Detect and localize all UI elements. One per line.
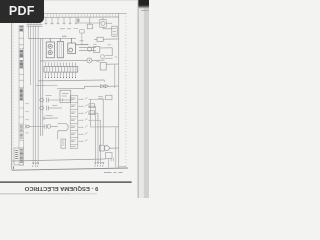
long bottom wire <box>12 153 112 168</box>
PDF badge <box>0 0 44 23</box>
switch S3 and solenoid loop <box>26 123 68 139</box>
label box bottom-centre <box>61 139 66 148</box>
relay box K2 (ladder top right) <box>98 95 112 100</box>
harness end arrows (right) <box>95 162 104 167</box>
harness end arrows (left) <box>32 162 38 167</box>
sender G1 (row at y100) <box>40 39 70 136</box>
drawing frame left border <box>12 14 14 170</box>
horn H1 with wires <box>79 46 112 55</box>
legend text blobs <box>20 27 23 139</box>
terminal drops below top ruler <box>45 17 78 29</box>
fuse box F1 (upper right) <box>94 37 119 41</box>
drawing frame top ruler strip <box>12 13 127 17</box>
wire (right vertical to bottom border) <box>115 127 117 167</box>
lamp L1 (top right) <box>100 17 112 27</box>
ignition switch S1 <box>46 38 54 57</box>
separator rule above caption <box>0 181 132 183</box>
ladder row labels <box>71 98 76 147</box>
page background <box>0 0 149 198</box>
diode pair D1 D2 <box>101 84 119 88</box>
annotation smudge (Anexo note) <box>104 171 123 173</box>
drawing frame bottom border <box>12 168 129 170</box>
tiny value labels <box>25 41 117 162</box>
node bus top-left <box>28 36 76 38</box>
ladder legend column <box>70 96 78 149</box>
resistor box R1 <box>105 153 112 159</box>
right page-edge strip <box>138 0 149 198</box>
drawing frame right border <box>119 13 126 168</box>
ladder switch contacts <box>78 97 105 142</box>
sensor wire (row at y118) <box>44 116 58 120</box>
dark top-right corner of page edge <box>138 0 149 5</box>
title block <box>13 148 23 169</box>
relay contact boxes K3 K4 <box>89 104 95 115</box>
junction box U2 (right mid) <box>100 62 119 88</box>
terminal strip X1 (comb) <box>44 62 78 77</box>
relay K1 (top) <box>76 17 100 44</box>
sender G2 (row at y108) <box>40 106 62 111</box>
flasher unit U3 <box>57 86 100 102</box>
faint lower rule <box>0 192 70 195</box>
cable legend column <box>19 26 24 166</box>
connector J5 (3-pin, top right) <box>103 26 117 36</box>
ladder collector wires <box>91 99 119 162</box>
switch block S2 <box>57 38 63 57</box>
bus wire (long horizontal) <box>38 79 104 82</box>
control unit U1 <box>68 38 89 53</box>
wire bundle (left harness) <box>28 25 57 162</box>
caption: 9 - ESQUEMA ELECTRICO (upside down) <box>0 185 123 191</box>
gauge M1 (middle) <box>40 55 113 63</box>
buzzer B1 <box>100 145 119 151</box>
harness top connector ticks <box>27 22 43 26</box>
